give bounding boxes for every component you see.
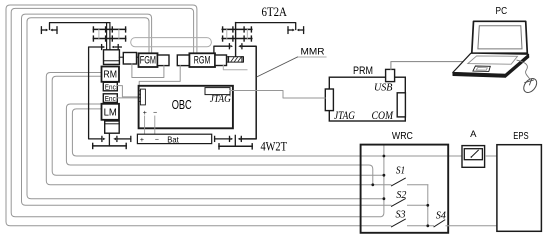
coupling right of FGM [158,55,170,66]
wire from LM to switch S1 branch [66,104,372,185]
dipole antenna top-right near PC [287,27,289,34]
on-board computer OBC [139,86,233,129]
svg-text:−: − [153,110,157,117]
wire loop from FGM around left side to switch S2 [22,14,392,205]
junction dots in WRC [383,155,386,158]
svg-text:RM: RM [103,70,117,81]
reaction motor RM [102,67,120,82]
svg-text:S1: S1 [396,164,405,176]
antenna cluster 6T2A left (bars, ticks, masts) [93,28,125,30]
svg-text:A: A [470,129,477,140]
wire from LM through WRC to ammeter A [72,109,463,156]
antenna cluster 6T2A right (bars, ticks, mast) [222,28,252,30]
USB connector [386,69,395,81]
encoder Enc lower [103,94,117,103]
JTAG connector [325,89,333,111]
svg-text:−: − [155,137,159,144]
COM connector [397,93,405,117]
wire Enc lower to OBC header [117,97,138,99]
svg-text:4W2T: 4W2T [260,140,287,154]
shaft motor to coupling [119,56,123,58]
svg-text:LM: LM [104,108,117,119]
svg-text:Enc: Enc [105,82,116,91]
wire from top-left antenna feed to bottom-left antenna feed [89,47,102,139]
svg-text:EPS: EPS [513,131,529,142]
battery Bat [137,134,211,143]
wire OBC minus to Bat [154,116,156,136]
programmer module PRM box [329,77,405,121]
wire loop from FGM around left side to WRC riser junction [27,18,384,199]
wire switch riser S1-S4 [427,185,429,226]
motor housing below LM [105,121,120,133]
wire from RM to WRC riser junction [52,76,384,175]
svg-text:6T2A: 6T2A [262,5,287,19]
antenna rod bottom-right 4W2T [234,135,236,146]
power system EPS [497,145,542,232]
antenna feed arrows top-right cluster [214,46,230,55]
svg-text:FGM: FGM [140,55,156,67]
antenna feed arrows bottom-left [101,136,103,141]
wire from RGM coupling to OBC header [139,66,180,90]
svg-text:RGM: RGM [194,55,211,67]
svg-text:USB: USB [374,81,393,93]
pin header connector inside OBC [140,89,145,105]
JTAG port box inside OBC [205,88,230,95]
hatched flexible shaft right of RGM coupling [227,57,244,62]
wire WRC S4 to EPS [448,225,497,227]
wire loop from RGM around left side to switch S3 [6,5,391,226]
wire stub from RGM right coupling [223,66,247,70]
antenna rod bottom-left 4W2T [108,133,110,146]
svg-text:WRC: WRC [392,131,413,142]
dipole antenna top-left [40,27,42,34]
encoder Enc upper [103,82,117,91]
computer PC laptop [472,21,528,53]
antenna feed arrows bottom-right [214,136,216,141]
relay box WRC [361,145,449,233]
wire stadium loop under FGM and RGM [131,38,212,47]
svg-text:PRM: PRM [353,65,373,77]
wire from right mast to right dipole [236,23,296,30]
svg-text:Enc: Enc [105,94,116,103]
svg-text:+: + [140,137,144,144]
svg-text:JTAG: JTAG [210,94,231,105]
wire Enc upper to OBC header [117,86,138,97]
svg-text:JTAG: JTAG [334,110,356,122]
wire OBC JTAG to PRM JTAG [230,91,325,99]
wire A to EPS [486,155,497,157]
svg-text:MMR: MMR [301,46,325,57]
coupling left of FGM [123,53,136,65]
wire from left dipole to left mast [50,23,110,30]
flywheel FGM [139,53,158,67]
wire loop from RGM around left side to WRC riser [11,8,384,216]
wire from RM to switch S1 [46,73,391,185]
wire OBC plus to Bat [144,116,146,136]
wire from FGM couplings loop under FGM [132,64,164,78]
svg-text:S3: S3 [396,208,407,220]
wire MMR from top-right antenna feed to bottom-right antenna feed [241,46,256,139]
svg-text:Bat: Bat [167,135,179,144]
coupling left of RGM [177,55,189,66]
ammeter A [462,146,485,168]
flywheel RGM [189,53,215,67]
coupling right of RGM [215,55,227,66]
svg-text:OBC: OBC [172,98,192,112]
svg-text:PC: PC [496,6,508,17]
motor housing above RM [104,50,120,65]
antenna feed arrows top-left cluster [101,45,103,50]
mouse with cable [517,60,531,80]
shaft coupling to FGM [137,56,139,58]
wire USB to PC laptop [391,62,463,70]
svg-text:COM: COM [372,110,395,122]
linear motor LM [102,104,120,120]
